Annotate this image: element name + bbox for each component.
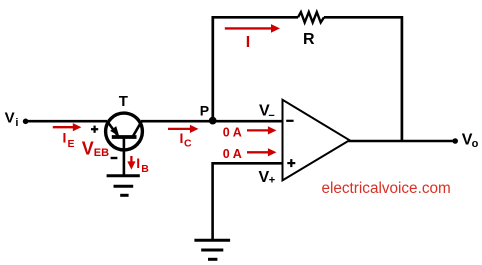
svg-text:R: R	[303, 31, 315, 48]
current arrow IB	[127, 156, 135, 170]
label V-	[259, 103, 275, 122]
svg-text:i: i	[15, 117, 18, 129]
label V+	[259, 169, 276, 187]
wire input Vi to transistor emitter	[26, 120, 107, 123]
label Vi	[5, 109, 19, 129]
ground (non-inverting input)	[194, 240, 230, 259]
svg-text:C: C	[184, 138, 192, 150]
op-amp U1	[283, 100, 350, 181]
label IB	[136, 155, 149, 175]
label Vo	[462, 131, 479, 150]
current arrow 0A into inverting input	[247, 126, 277, 134]
current arrow 0A into non-inverting input	[247, 148, 277, 156]
svg-text:0 A: 0 A	[223, 125, 242, 139]
label IC	[180, 130, 193, 150]
node Vi terminal	[23, 119, 29, 125]
svg-text:V: V	[5, 109, 15, 126]
svg-text:B: B	[141, 163, 149, 175]
svg-text:0 A: 0 A	[223, 147, 242, 161]
svg-text:I: I	[180, 130, 184, 146]
svg-text:I: I	[246, 34, 250, 51]
wire collector to op-amp inverting input	[141, 120, 283, 123]
node Vo terminal	[452, 138, 458, 144]
wire non-inverting input to ground	[213, 163, 283, 239]
svg-text:I: I	[63, 130, 67, 146]
transistor T (PNP, common-base)	[106, 113, 143, 176]
svg-text:I: I	[136, 155, 140, 171]
svg-text:EB: EB	[94, 147, 109, 159]
label IE	[63, 130, 75, 150]
polarity + (emitter side)	[91, 126, 98, 133]
svg-text:V: V	[82, 139, 94, 159]
resistor R	[298, 12, 324, 22]
svg-text:E: E	[68, 138, 75, 150]
svg-text:+: +	[269, 175, 275, 187]
svg-text:−: −	[268, 110, 274, 122]
svg-text:P: P	[200, 103, 209, 119]
wire feedback right: resistor to output node	[324, 17, 402, 141]
wire feedback left: node P up and across to resistor	[213, 17, 298, 121]
node P junction	[209, 117, 217, 125]
ground (transistor base)	[107, 176, 140, 196]
label VEB	[82, 139, 109, 160]
current arrow IE	[53, 123, 82, 131]
current arrow IC	[168, 125, 199, 133]
wire output	[349, 140, 456, 143]
svg-text:T: T	[119, 93, 128, 110]
svg-text:electricalvoice.com: electricalvoice.com	[322, 180, 451, 197]
polarity - (base side)	[111, 157, 118, 159]
svg-text:o: o	[472, 138, 479, 150]
current arrow I (feedback)	[225, 24, 280, 33]
